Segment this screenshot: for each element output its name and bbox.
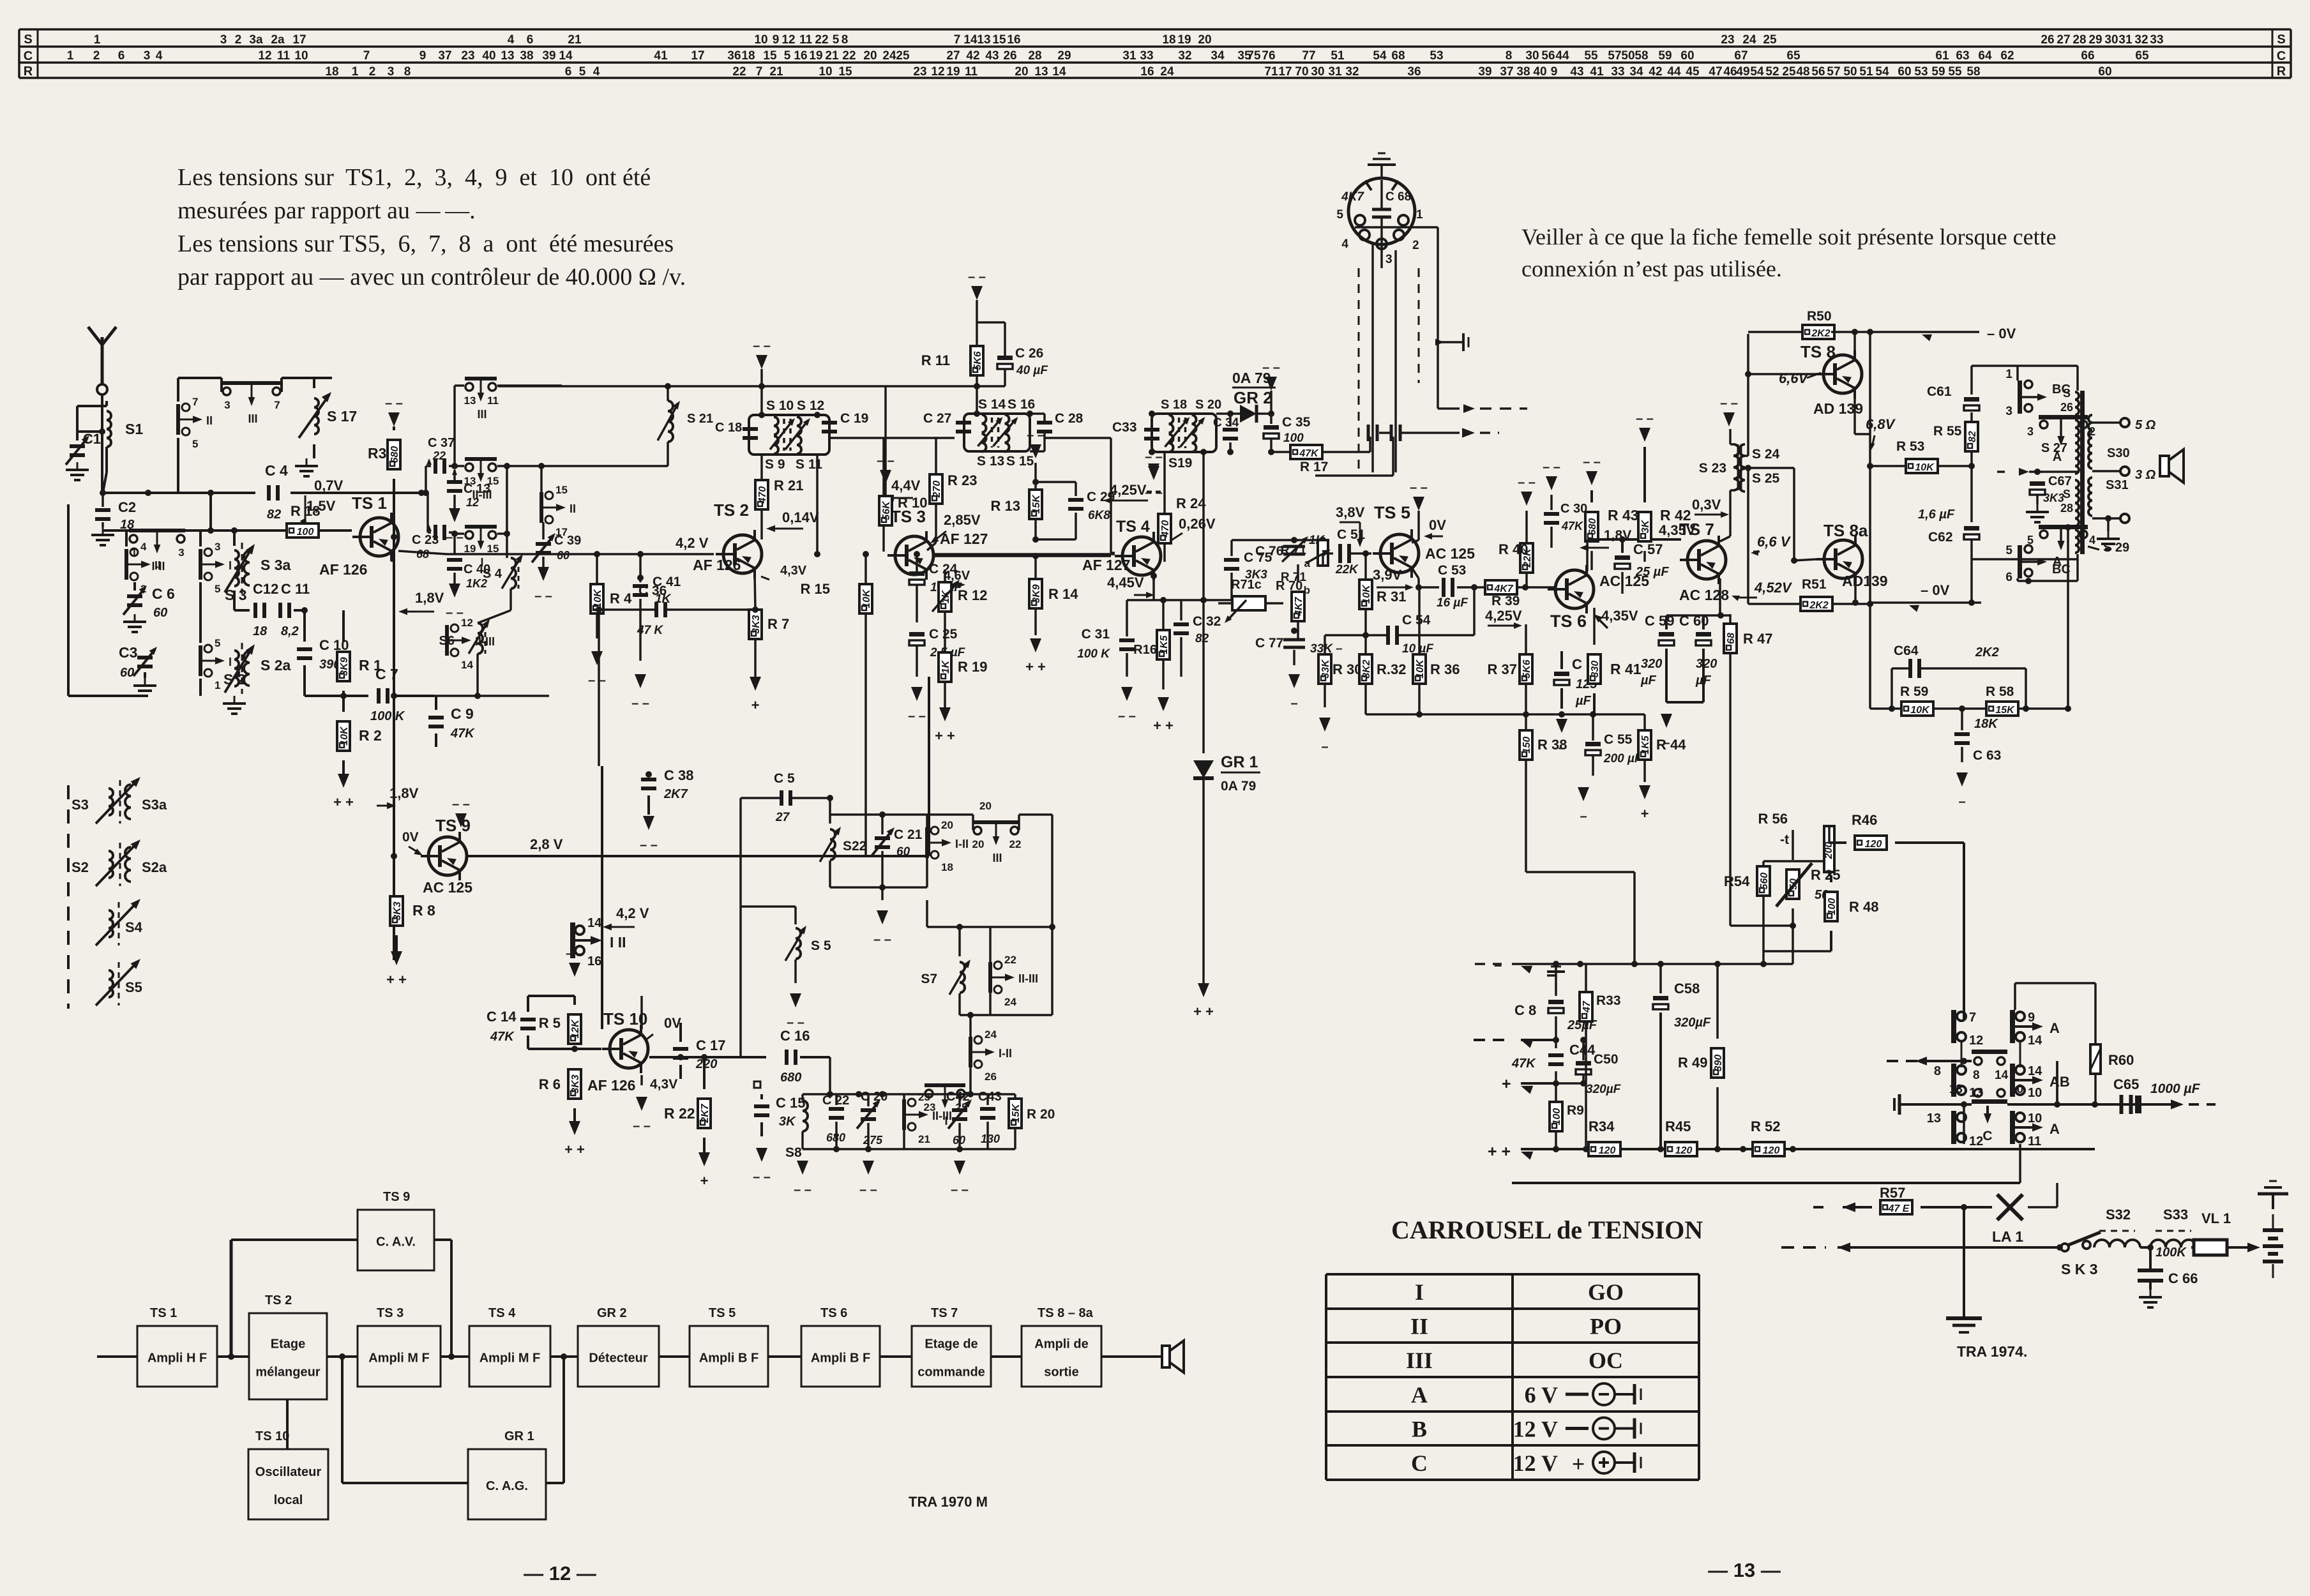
- svg-text:S30: S30: [2107, 446, 2130, 460]
- svg-text:II-III: II-III: [1018, 972, 1038, 985]
- svg-text:0V: 0V: [664, 1015, 681, 1031]
- pushbutton mid chassis line: [1899, 1101, 2152, 1108]
- svg-text:26: 26: [2041, 33, 2054, 47]
- svg-text:– –: – –: [753, 339, 771, 353]
- resistor R10: [879, 386, 927, 525]
- svg-text:+ +: + +: [935, 728, 955, 744]
- svg-text:9: 9: [2028, 1011, 2035, 1025]
- wire tank2 mid bus: [1045, 438, 1115, 553]
- driver transformer S23 S24 S25: [1699, 444, 1780, 492]
- svg-text:5: 5: [579, 65, 586, 79]
- svg-text:R57: R57: [1880, 1185, 1905, 1201]
- svg-text:S19: S19: [1168, 456, 1192, 471]
- supply term below S8: [797, 1161, 808, 1175]
- svg-text:AD139: AD139: [1842, 573, 1888, 589]
- switch BC pins 5 6 lower: [2005, 544, 2070, 584]
- svg-text:100 K: 100 K: [1077, 647, 1110, 661]
- resistor R37: [1488, 624, 1532, 714]
- svg-text:C: C: [1982, 1129, 1992, 1143]
- svg-text:TS 1: TS 1: [150, 1306, 177, 1320]
- svg-text:44: 44: [1555, 49, 1569, 63]
- svg-text:C 25: C 25: [929, 627, 958, 642]
- svg-text:50: 50: [1621, 49, 1634, 63]
- svg-text:17: 17: [691, 49, 704, 63]
- capacitor C18: [715, 421, 758, 440]
- capacitor C68 in DIN: [1341, 180, 1411, 268]
- svg-text:47 E: 47 E: [1888, 1203, 1910, 1214]
- svg-text:31: 31: [1122, 49, 1136, 63]
- wire TS7 emitter down: [1719, 578, 1721, 613]
- svg-text:33: 33: [1140, 49, 1153, 63]
- resistor R1: [337, 610, 382, 681]
- svg-text:23: 23: [1721, 33, 1734, 47]
- svg-text:33: 33: [1611, 65, 1624, 79]
- capacitor C19: [822, 411, 868, 433]
- svg-text:C1: C1: [83, 431, 101, 447]
- block TS3 Ampli MF: [358, 1326, 441, 1387]
- tuning gang frame: [68, 504, 145, 1009]
- oscillator bottom ground bus: [803, 1146, 1015, 1152]
- lamp LA1: [1992, 1183, 2057, 1245]
- svg-text:58: 58: [1967, 65, 1980, 79]
- svg-text:29: 29: [2088, 33, 2102, 47]
- switch II-III pins 13 15: [455, 457, 510, 501]
- resistor R20: [1009, 1094, 1055, 1149]
- svg-text:3,8V: 3,8V: [1336, 504, 1365, 520]
- wire R52 row to matrix: [1793, 1148, 2095, 1150]
- svg-text:1: 1: [352, 65, 359, 79]
- svg-text:48: 48: [1796, 65, 1809, 79]
- svg-text:60: 60: [153, 606, 167, 620]
- svg-text:13: 13: [977, 33, 990, 47]
- svg-text:A: A: [2050, 1020, 2060, 1036]
- svg-text:21: 21: [825, 49, 839, 63]
- DIN cable wires down: [1359, 243, 1419, 472]
- svg-text:3 Ω: 3 Ω: [2135, 468, 2156, 482]
- output transformer core: [2080, 391, 2085, 554]
- pushbutton bar 8 14: [1972, 1050, 2009, 1082]
- svg-text:C 77: C 77: [1255, 636, 1283, 651]
- svg-text:R 19: R 19: [958, 659, 987, 675]
- svg-text:S 11: S 11: [796, 457, 822, 472]
- svg-text:GR 2: GR 2: [1234, 388, 1272, 407]
- svg-text:C 16: C 16: [780, 1028, 810, 1044]
- svg-text:27: 27: [946, 49, 960, 63]
- block TS6 Ampli BF: [801, 1326, 880, 1387]
- pushbutton switch pins 13 12: [1927, 1111, 1984, 1148]
- wire C62 bottom bus: [1972, 558, 2078, 561]
- svg-text:3: 3: [144, 49, 151, 63]
- svg-text:S 3a: S 3a: [260, 557, 291, 573]
- svg-text:4,25V: 4,25V: [1485, 608, 1522, 624]
- wire R3 down to TS9 column: [391, 479, 397, 960]
- svg-text:S1: S1: [125, 421, 143, 437]
- svg-text:GR 1: GR 1: [504, 1429, 534, 1443]
- resistor R34: [1589, 1118, 1620, 1156]
- svg-text:560: 560: [1759, 873, 1770, 890]
- switch I II pins 14 16: [570, 916, 626, 968]
- svg-text:40: 40: [1533, 65, 1546, 79]
- svg-text:C65: C65: [2113, 1076, 2139, 1092]
- wire volume top bus: [1232, 537, 1326, 543]
- svg-text:25 µF: 25 µF: [1635, 565, 1669, 579]
- svg-text:4,2 V: 4,2 V: [676, 535, 709, 551]
- switch I-II pins 24 26: [960, 1012, 1052, 1094]
- transistor TS4: [1082, 518, 1161, 580]
- svg-text:S: S: [2063, 387, 2071, 400]
- svg-text:S 27: S 27: [2041, 441, 2067, 455]
- svg-text:R 7: R 7: [767, 616, 789, 632]
- svg-text:4,3V: 4,3V: [650, 1077, 677, 1092]
- capacitor C41: [633, 554, 681, 661]
- svg-text:14: 14: [963, 33, 978, 47]
- svg-text:S: S: [2277, 33, 2285, 47]
- voltage 2.85V TS3: [928, 512, 981, 546]
- wire S17 to bus: [282, 377, 314, 379]
- voltage 0.26V TS4: [1161, 516, 1216, 548]
- svg-text:S 16: S 16: [1008, 397, 1035, 412]
- svg-text:R 71: R 71: [1281, 544, 1307, 557]
- svg-text:1: 1: [215, 679, 220, 691]
- svg-text:3: 3: [388, 65, 395, 79]
- svg-text:– 0V: – 0V: [1987, 326, 2016, 342]
- svg-text:2a: 2a: [271, 33, 285, 47]
- svg-text:3K: 3K: [1640, 519, 1651, 533]
- ground below C56: [1556, 719, 1567, 733]
- svg-text:AF 127: AF 127: [940, 531, 988, 547]
- resistor R4: [591, 554, 632, 638]
- voltage 3.8V TS5: [1336, 504, 1365, 547]
- variable capacitor C42: [946, 1090, 974, 1149]
- switch A pins 5 4 lower: [2027, 525, 2095, 569]
- capacitor C13: [446, 469, 490, 545]
- svg-text:30: 30: [1311, 65, 1324, 79]
- positive terminal below GR1: [1198, 983, 1209, 997]
- svg-text:II: II: [1410, 1314, 1428, 1339]
- output transformer winding S27: [2041, 420, 2079, 474]
- svg-text:3: 3: [2027, 425, 2034, 438]
- svg-text:C67: C67: [2048, 474, 2072, 488]
- svg-text:44: 44: [1667, 65, 1681, 79]
- svg-text:45: 45: [1686, 65, 1700, 79]
- supply term below R4: [591, 651, 603, 665]
- svg-text:20: 20: [863, 49, 877, 63]
- svg-text:42: 42: [966, 49, 979, 63]
- svg-text:C 27: C 27: [923, 411, 951, 426]
- svg-text:320: 320: [1696, 657, 1717, 671]
- wire plusplus rail y1800: [1488, 1143, 2095, 1161]
- svg-text:µF: µF: [1575, 694, 1592, 708]
- svg-text:R46: R46: [1852, 812, 1877, 828]
- coil S8: [785, 1094, 808, 1160]
- resistor R22: [664, 1057, 711, 1152]
- svg-text:7: 7: [1969, 1011, 1976, 1025]
- voltage 4.25V TS4: [1103, 482, 1148, 504]
- svg-text:1: 1: [94, 33, 101, 47]
- supply term above C30: [1546, 476, 1557, 490]
- svg-text:Etage de: Etage de: [925, 1337, 978, 1351]
- svg-text:S 25: S 25: [1752, 471, 1780, 486]
- supply term below C31: [1121, 687, 1133, 701]
- wire C1 S1 join: [77, 406, 107, 493]
- positive term below R44: [1639, 785, 1650, 799]
- capacitor C2: [95, 490, 136, 532]
- svg-text:S 17: S 17: [327, 408, 357, 425]
- pushbutton column connectors: [1961, 1041, 2020, 1067]
- svg-text:3: 3: [178, 546, 184, 559]
- svg-text:60: 60: [1898, 65, 1911, 79]
- wire dashed rail y1629: [1474, 1036, 1556, 1048]
- svg-text:67: 67: [1734, 49, 1748, 63]
- capacitor C32: [1174, 600, 1221, 658]
- svg-text:38: 38: [1516, 65, 1530, 79]
- svg-text:– –: – –: [873, 933, 891, 947]
- ground below C1: [77, 462, 79, 470]
- svg-text:II: II: [155, 559, 161, 572]
- switch II pins 4 2: [125, 531, 161, 595]
- svg-text:– –: – –: [633, 1119, 651, 1133]
- svg-text:I-II: I-II: [999, 1047, 1012, 1060]
- svg-text:–: –: [1958, 795, 1965, 809]
- coil S1: [77, 401, 143, 447]
- svg-text:C 15: C 15: [776, 1095, 805, 1111]
- svg-text:C 53: C 53: [1438, 563, 1466, 578]
- svg-text:R 39: R 39: [1491, 594, 1520, 608]
- resistor R13: [991, 463, 1042, 543]
- coil S22 variable: [820, 795, 866, 887]
- coil S7 variable: [921, 927, 973, 1015]
- svg-text:AF 126: AF 126: [319, 561, 367, 578]
- resistor R70 4K7: [1276, 564, 1304, 638]
- svg-text:29: 29: [1057, 49, 1071, 63]
- voltage 4.45V TS4: [1107, 575, 1154, 598]
- wire C4 bus: [103, 490, 425, 496]
- svg-text:R 15: R 15: [801, 581, 830, 597]
- svg-text:C 38: C 38: [664, 767, 693, 783]
- ground bottom center right: [1946, 1318, 1982, 1332]
- svg-text:– –: – –: [908, 709, 926, 723]
- resistor R19: [939, 612, 987, 707]
- svg-text:320µF: 320µF: [1586, 1083, 1622, 1096]
- resistor R39: [1485, 580, 1555, 608]
- svg-text:82: 82: [1967, 431, 1978, 442]
- svg-text:2K2: 2K2: [1811, 328, 1830, 339]
- block TS10 Oscillateur local: [248, 1449, 328, 1519]
- svg-text:Ampli H F: Ampli H F: [147, 1351, 207, 1366]
- svg-text:4,25V: 4,25V: [1110, 482, 1147, 498]
- svg-text:R 58: R 58: [1986, 684, 2014, 699]
- svg-text:R 38: R 38: [1537, 737, 1567, 753]
- svg-text:24: 24: [985, 1028, 997, 1041]
- svg-text:– –: – –: [968, 270, 986, 284]
- svg-text:42: 42: [1649, 65, 1662, 79]
- svg-text:6: 6: [527, 33, 534, 47]
- svg-text:Ampli de: Ampli de: [1034, 1337, 1088, 1351]
- svg-text:100: 100: [1283, 432, 1304, 445]
- svg-text:320µF: 320µF: [1674, 1016, 1711, 1030]
- svg-text:6K8: 6K8: [1088, 509, 1110, 522]
- svg-text:– –: – –: [1145, 486, 1163, 500]
- svg-text:– –: – –: [1518, 476, 1536, 490]
- svg-text:22: 22: [1004, 954, 1016, 966]
- svg-text:15: 15: [487, 543, 499, 555]
- svg-text:14: 14: [461, 659, 473, 671]
- svg-text:— 12 —: — 12 —: [524, 1562, 596, 1585]
- wire lower switch bus: [2018, 554, 2078, 584]
- supply term above R10 col: [880, 470, 891, 484]
- positive terminal below R19: [939, 707, 951, 721]
- svg-text:47K: 47K: [490, 1030, 515, 1044]
- svg-text:S3: S3: [72, 797, 89, 813]
- svg-text:12: 12: [466, 496, 479, 509]
- svg-text:37: 37: [1500, 65, 1513, 79]
- voltage 3.9V TS5 emitter: [1373, 567, 1414, 591]
- svg-text:47K: 47K: [1561, 520, 1584, 532]
- svg-text:R 47: R 47: [1743, 631, 1772, 647]
- svg-text:Ampli B F: Ampli B F: [699, 1351, 759, 1366]
- svg-text:GR 2: GR 2: [597, 1306, 627, 1320]
- svg-text:R: R: [2277, 64, 2286, 79]
- svg-text:S 14: S 14: [978, 397, 1006, 412]
- capacitor C57: [1615, 539, 1669, 594]
- wire R71 wiper to C51: [1306, 547, 1333, 566]
- block TS10 wire: [286, 1399, 289, 1449]
- svg-text:4,3V: 4,3V: [780, 564, 807, 578]
- svg-text:R51: R51: [1802, 577, 1827, 592]
- wire TS9 collector 2.8V: [467, 677, 929, 856]
- capacitor C36: [594, 583, 755, 766]
- transistor TS8: [1800, 342, 1863, 417]
- svg-text:C 9: C 9: [451, 705, 474, 722]
- fuse VL1: [2191, 1210, 2260, 1255]
- resistor R5: [539, 996, 581, 1044]
- svg-text:S 24: S 24: [1752, 447, 1780, 462]
- svg-text:C 66: C 66: [2168, 1270, 2198, 1286]
- svg-text:C 6: C 6: [152, 585, 175, 602]
- svg-text:S5: S5: [125, 979, 142, 995]
- supply term above S23: [1723, 412, 1735, 426]
- svg-text:43: 43: [985, 49, 999, 63]
- switch II pins 15 17: [540, 466, 576, 538]
- ground below C6: [134, 614, 136, 622]
- resistor R43: [1585, 490, 1639, 570]
- svg-text:5: 5: [784, 49, 791, 63]
- svg-text:TRA 1970 M: TRA 1970 M: [909, 1494, 988, 1510]
- capacitor C40: [446, 534, 490, 620]
- switch BC pins 1 3 top: [2005, 366, 2070, 418]
- svg-text:20: 20: [1015, 65, 1028, 79]
- svg-text:LA 1: LA 1: [1992, 1228, 2023, 1245]
- svg-text:R 4: R 4: [610, 591, 632, 606]
- svg-text:R50: R50: [1807, 309, 1832, 324]
- svg-text:20: 20: [979, 800, 992, 812]
- svg-text:41: 41: [654, 49, 668, 63]
- svg-text:AF 126: AF 126: [587, 1077, 635, 1094]
- voltage 4.52V TS7 emitter: [1730, 580, 1792, 601]
- ground stub below R70 C77: [1288, 650, 1300, 711]
- svg-text:63: 63: [1956, 49, 1969, 63]
- svg-text:57: 57: [1608, 49, 1621, 63]
- svg-text:4,4V: 4,4V: [891, 478, 921, 493]
- svg-text:R 2: R 2: [359, 727, 382, 744]
- svg-text:5: 5: [192, 438, 198, 450]
- svg-text:C 76: C 76: [1255, 544, 1283, 559]
- supply term above R13: [1030, 444, 1041, 458]
- voltage 4.3V TS2: [761, 564, 807, 580]
- svg-text:52: 52: [1765, 65, 1779, 79]
- wire C32 bottom: [1180, 658, 1182, 677]
- svg-text:61: 61: [1935, 49, 1949, 63]
- resistor R49: [1678, 964, 1724, 1149]
- svg-text:Ampli B F: Ampli B F: [811, 1351, 870, 1366]
- svg-text:6,6 V: 6,6 V: [1757, 534, 1792, 550]
- capacitor C62: [1918, 508, 1979, 606]
- svg-text:S33: S33: [2163, 1207, 2188, 1223]
- capacitor C28: [1030, 411, 1083, 451]
- svg-text:R54: R54: [1724, 873, 1750, 889]
- capacitor C16: [780, 1028, 830, 1085]
- svg-text:S 3: S 3: [225, 587, 247, 603]
- svg-text:TRA 1974.: TRA 1974.: [1957, 1343, 2027, 1360]
- wire TS1 to TS2 bus: [398, 551, 714, 557]
- svg-text:15K: 15K: [1995, 705, 2015, 716]
- svg-text:75: 75: [1247, 49, 1261, 63]
- svg-text:R 41: R 41: [1610, 661, 1642, 677]
- switch I pins 5 1: [199, 637, 232, 696]
- svg-text:TS 2: TS 2: [265, 1293, 292, 1307]
- block speaker icon: [1162, 1341, 1184, 1373]
- positive terminal below R2: [338, 774, 349, 788]
- svg-text:– –: – –: [534, 589, 552, 603]
- wire left supply rail y1510: [1475, 957, 1793, 974]
- pushbutton switch pins 7 12: [1951, 1010, 1983, 1048]
- svg-text:C 8: C 8: [1514, 1002, 1536, 1018]
- resistor R14: [1029, 554, 1078, 635]
- svg-text:S3a: S3a: [142, 797, 167, 813]
- ground top right of battery: [2258, 1181, 2288, 1209]
- svg-text:R 48: R 48: [1849, 899, 1878, 915]
- svg-text:59: 59: [1658, 49, 1672, 63]
- svg-text:12: 12: [461, 617, 473, 629]
- svg-text:R34: R34: [1589, 1118, 1615, 1134]
- svg-text:19: 19: [464, 543, 476, 555]
- DIN pin1 wire right arrow: [1408, 227, 1527, 413]
- svg-text:3a: 3a: [249, 33, 263, 47]
- resistor R23: [927, 438, 977, 550]
- supply term above TS9: [455, 813, 467, 827]
- ground above DIN: [1368, 153, 1396, 179]
- svg-text:680: 680: [780, 1071, 801, 1085]
- svg-text:16: 16: [1140, 65, 1154, 79]
- svg-text:14: 14: [1995, 1069, 2009, 1082]
- transistor TS8a: [1816, 521, 1888, 589]
- capacitor C22: [822, 1094, 849, 1149]
- svg-text:R 37: R 37: [1488, 661, 1517, 677]
- resistor R7: [749, 610, 789, 677]
- svg-text:R 49: R 49: [1678, 1055, 1707, 1071]
- svg-text:C 11: C 11: [281, 581, 310, 597]
- resistor R3: [368, 426, 400, 469]
- svg-text:TS 3: TS 3: [377, 1306, 404, 1320]
- wire R1 to C7 line: [305, 691, 368, 712]
- svg-text:R 11: R 11: [921, 352, 950, 368]
- svg-text:0,7V: 0,7V: [314, 478, 343, 493]
- svg-text:36: 36: [727, 49, 741, 63]
- svg-text:R9: R9: [1567, 1103, 1584, 1118]
- svg-text:B: B: [1412, 1417, 1427, 1442]
- svg-text:2K2: 2K2: [1975, 645, 1999, 659]
- svg-text:47K: 47K: [450, 726, 475, 741]
